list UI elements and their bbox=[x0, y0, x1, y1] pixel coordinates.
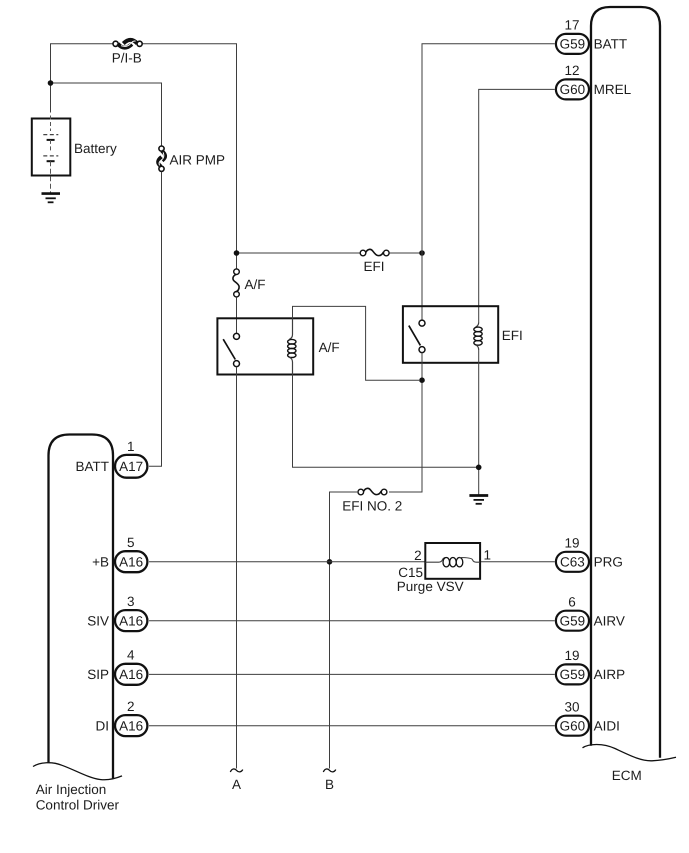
node: junction battery / P-I-B feed bbox=[48, 80, 54, 86]
wire: EFI fuse line (A/F branch to EFI relay branch) bbox=[237, 252, 423, 254]
svg-text:1: 1 bbox=[127, 439, 135, 454]
wire: SIP line bbox=[149, 673, 555, 675]
wire: EFI junction down to relay EFI switch bbox=[421, 253, 423, 320]
svg-text:Control Driver: Control Driver bbox=[36, 798, 120, 813]
fusible link P/I-B bbox=[112, 40, 142, 66]
connector A16 pin 2 (DI) bbox=[96, 699, 148, 736]
svg-text:A: A bbox=[232, 777, 241, 792]
svg-text:AIRV: AIRV bbox=[594, 613, 625, 628]
wire: AIR PMP down to connector A17 bbox=[149, 172, 162, 466]
fuse EFI bbox=[360, 249, 389, 274]
svg-text:EFI: EFI bbox=[363, 259, 384, 274]
svg-text:5: 5 bbox=[127, 535, 135, 550]
svg-text:G59: G59 bbox=[560, 613, 586, 628]
fuse EFI NO. 2 bbox=[342, 488, 402, 513]
connector A16 pin 5 (+B) bbox=[92, 535, 147, 572]
node: break B bbox=[323, 769, 336, 792]
svg-text:A/F: A/F bbox=[319, 340, 340, 355]
svg-text:G59: G59 bbox=[560, 37, 586, 52]
svg-text:19: 19 bbox=[564, 535, 579, 550]
wire: MREL from ECM pin G60 to relay EFI coil bbox=[479, 89, 555, 322]
node: junction +B line / B feed bbox=[327, 559, 333, 565]
svg-text:AIRP: AIRP bbox=[594, 667, 626, 682]
connector G60 pin 30 (AIDI) bbox=[556, 699, 620, 735]
svg-text:ECM: ECM bbox=[612, 768, 642, 783]
box: ECM bbox=[583, 7, 677, 783]
wire: top feed from battery to P/I-B fuse and down to A/F branch bbox=[51, 44, 237, 269]
fusible link AIR PMP bbox=[158, 146, 225, 171]
svg-text:+B: +B bbox=[92, 555, 109, 570]
svg-text:6: 6 bbox=[568, 594, 576, 609]
svg-text:MREL: MREL bbox=[594, 82, 632, 97]
ground: relay coils ground bbox=[469, 496, 488, 504]
svg-text:DI: DI bbox=[96, 718, 110, 733]
svg-text:EFI: EFI bbox=[502, 328, 523, 343]
node: junction coil returns / ground bbox=[476, 465, 482, 471]
switch of relay A/F bbox=[223, 333, 239, 366]
svg-text:G60: G60 bbox=[560, 82, 586, 97]
connector G59 pin 19 (AIRP) bbox=[556, 648, 625, 684]
svg-text:A16: A16 bbox=[119, 613, 143, 628]
svg-text:A16: A16 bbox=[119, 718, 143, 733]
svg-text:G59: G59 bbox=[560, 667, 586, 682]
svg-text:AIR PMP: AIR PMP bbox=[170, 152, 226, 167]
battery bbox=[32, 116, 117, 194]
connector A16 pin 4 (SIP) bbox=[87, 648, 147, 685]
svg-text:17: 17 bbox=[564, 18, 579, 33]
svg-text:A16: A16 bbox=[119, 555, 143, 570]
svg-text:2: 2 bbox=[414, 548, 422, 563]
coil of relay A/F bbox=[288, 318, 296, 374]
svg-text:AIDI: AIDI bbox=[594, 718, 620, 733]
svg-text:SIV: SIV bbox=[87, 613, 109, 628]
wire: DI line bbox=[149, 725, 555, 727]
svg-text:PRG: PRG bbox=[594, 555, 623, 570]
svg-text:2: 2 bbox=[127, 699, 135, 714]
svg-text:P/I-B: P/I-B bbox=[112, 51, 142, 66]
svg-text:BATT: BATT bbox=[76, 459, 110, 474]
valve C15 Purge VSV bbox=[397, 543, 491, 594]
switch of relay EFI bbox=[409, 320, 425, 353]
wire: SIV line bbox=[149, 620, 555, 622]
wire: relay A/F switch down to break A bbox=[236, 367, 238, 769]
node: junction EFI line left bbox=[234, 250, 240, 256]
svg-text:4: 4 bbox=[127, 648, 135, 663]
svg-text:B: B bbox=[325, 777, 334, 792]
wire: BATT feed to ECM pin G59 bbox=[422, 44, 555, 253]
wire: relay EFI switch output down to EFI NO. 2 fuse bbox=[389, 353, 422, 492]
svg-text:19: 19 bbox=[564, 648, 579, 663]
wire: EFI NO. 2 line to vertical B bbox=[330, 492, 359, 769]
svg-text:A16: A16 bbox=[119, 667, 143, 682]
connector G59 pin 17 (BATT) bbox=[556, 18, 627, 54]
svg-text:30: 30 bbox=[564, 699, 579, 714]
svg-text:A/F: A/F bbox=[245, 277, 266, 292]
svg-text:3: 3 bbox=[127, 594, 135, 609]
svg-text:C63: C63 bbox=[560, 555, 585, 570]
wire: relay EFI coil bottom down to ground bbox=[478, 350, 480, 496]
wire: relay A/F coil bottom to ground junction bbox=[293, 375, 479, 468]
svg-text:SIP: SIP bbox=[87, 667, 109, 682]
coil of relay EFI bbox=[474, 322, 482, 350]
svg-text:G60: G60 bbox=[560, 718, 586, 733]
svg-text:Purge VSV: Purge VSV bbox=[397, 579, 464, 594]
node: junction A/F coil jog on EFI switch output bbox=[419, 377, 425, 383]
fuse A/F bbox=[233, 269, 266, 297]
svg-text:Air Injection: Air Injection bbox=[36, 782, 107, 797]
node: break A bbox=[230, 769, 243, 792]
connector A16 pin 3 (SIV) bbox=[87, 594, 147, 631]
svg-text:12: 12 bbox=[564, 63, 579, 78]
connector C63 pin 19 (PRG) bbox=[556, 535, 623, 571]
ground: battery ground bbox=[42, 194, 61, 203]
connector G59 pin 6 (AIRV) bbox=[556, 594, 625, 630]
connector G60 pin 12 (MREL) bbox=[556, 63, 632, 99]
wire: A/F fuse to relay A/F switch bbox=[236, 297, 238, 333]
node: junction EFI line right bbox=[419, 250, 425, 256]
svg-text:1: 1 bbox=[484, 548, 492, 563]
relay A/F bbox=[217, 318, 339, 374]
svg-text:BATT: BATT bbox=[594, 37, 628, 52]
wire: +B line to purge VSV and PRG bbox=[149, 561, 555, 563]
svg-text:EFI NO. 2: EFI NO. 2 bbox=[342, 499, 402, 514]
wire: relay A/F coil top jog to EFI relay switch output bbox=[293, 306, 420, 380]
svg-text:A17: A17 bbox=[119, 459, 143, 474]
svg-text:Battery: Battery bbox=[74, 141, 117, 156]
relay EFI bbox=[403, 306, 523, 363]
box: Air Injection Control Driver bbox=[33, 435, 122, 813]
wire: battery branch to AIR PMP line bbox=[51, 83, 162, 146]
connector A17 pin 1 bbox=[76, 439, 148, 478]
